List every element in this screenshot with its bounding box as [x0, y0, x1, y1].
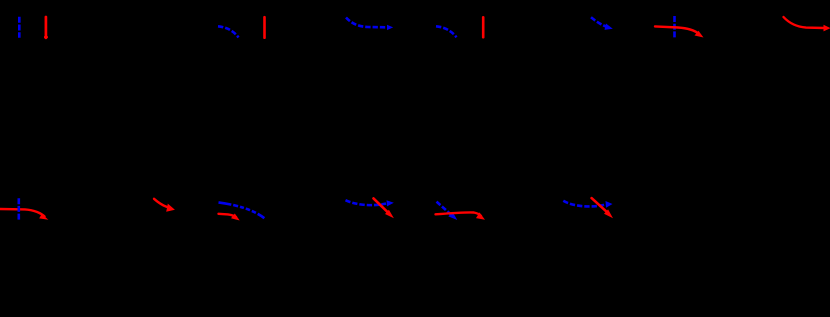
node : blue arrowhead bottom step5 [448, 212, 457, 220]
wire : red curved arrow (bottom step 1) [0, 209, 45, 217]
wire : red bond (top step 1) [45, 17, 48, 38]
wire : blue dashed bond vertical (top step 6) [673, 16, 676, 38]
wire : blue dashed arrow with head (top step 5) [591, 17, 608, 27]
wire : blue dashed curved arrow (top step 2) [218, 26, 239, 37]
node : red arrowhead bottom step5 [476, 212, 485, 219]
wire : red bond (top step 4) [482, 17, 485, 37]
node : red arrowhead top step6 [695, 31, 704, 38]
node : red arrowhead top right [824, 25, 830, 32]
wire : red diagonal arrow (bottom step 4) [374, 198, 389, 213]
node : red arrowhead bottom step2 [166, 204, 175, 212]
node : blue arrowhead bottom step4 [387, 200, 394, 206]
node : red arrowhead bottom step1 [39, 214, 48, 220]
wire : red curved arrow (bottom step 2) [154, 199, 167, 207]
wire : red curved arrow (top step 6) [655, 26, 699, 33]
wire : blue dashed diagonal arrow (bottom step 5) [437, 202, 453, 216]
wire : red curved arrow (bottom step 5) [436, 212, 482, 216]
node : red arrowhead bottom step4 [385, 210, 394, 218]
node : blue arrowhead step5 [605, 24, 613, 30]
wire : red bond (top step 2) [263, 17, 266, 38]
wire : red curved arrow (top right, step 7) [784, 17, 825, 28]
wire : blue dashed bond (top step 1, H-B bond) [18, 17, 21, 38]
node : red cap step1 [44, 36, 48, 38]
wire : blue dashed curved arrow (top step 4) [436, 26, 457, 37]
node : blue arrowhead step3 [387, 25, 393, 30]
node : red arrowhead bottom step6 [604, 209, 613, 218]
node : blue arrowhead bottom step6 [606, 201, 613, 208]
wire : blue dashed bond vertical (bottom step 1) [17, 198, 20, 220]
wire : blue dashed curved arrow (bottom step 4) [346, 200, 387, 205]
wire : blue dashed long curved arrow (top step 3) [346, 18, 387, 28]
node : red arrowhead bottom step3 [231, 214, 240, 221]
wire : red diagonal arrow (bottom step 6) [592, 198, 608, 213]
wire : blue dashed curved arrow (bottom step 3) [219, 202, 265, 218]
wire : red curved arrow (bottom step 3) [219, 214, 237, 217]
wire : blue dashed curved arrow (bottom step 6) [563, 201, 604, 207]
